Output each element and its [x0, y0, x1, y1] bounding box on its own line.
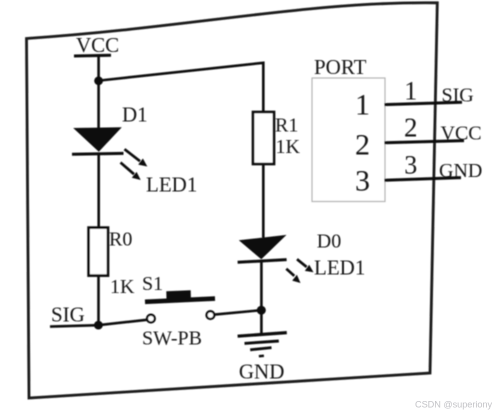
svg-text:2: 2	[355, 129, 370, 162]
svg-text:1K: 1K	[276, 136, 301, 158]
svg-text:3: 3	[404, 151, 417, 180]
svg-text:R1: R1	[275, 114, 298, 136]
svg-text:GND: GND	[439, 160, 482, 182]
svg-text:R0: R0	[109, 229, 132, 251]
svg-text:CSDN @superiony: CSDN @superiony	[415, 400, 492, 410]
svg-text:1: 1	[404, 77, 417, 106]
svg-text:VCC: VCC	[441, 123, 482, 145]
svg-text:LED1: LED1	[146, 173, 197, 197]
svg-text:D1: D1	[122, 103, 148, 127]
svg-text:S1: S1	[142, 273, 163, 295]
svg-text:LED1: LED1	[314, 256, 365, 280]
svg-text:PORT: PORT	[314, 55, 367, 79]
svg-text:3: 3	[355, 165, 370, 198]
svg-text:1K: 1K	[110, 276, 135, 298]
svg-text:2: 2	[404, 113, 418, 143]
svg-text:SIG: SIG	[442, 85, 474, 107]
svg-text:GND: GND	[239, 360, 285, 384]
svg-text:SIG: SIG	[51, 303, 85, 327]
svg-text:SW-PB: SW-PB	[142, 327, 202, 349]
svg-text:VCC: VCC	[76, 33, 119, 57]
svg-text:1: 1	[355, 89, 370, 122]
svg-text:D0: D0	[317, 231, 341, 253]
